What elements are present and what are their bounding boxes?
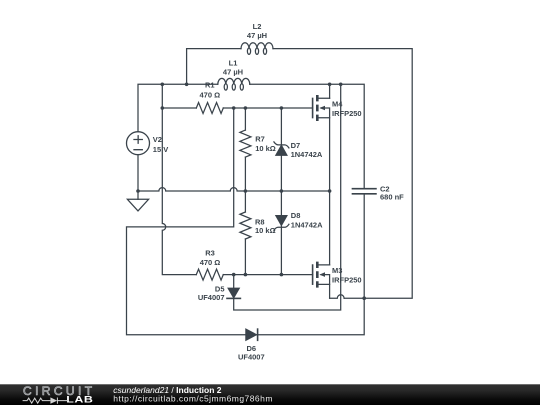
svg-text:1N4742A: 1N4742A — [291, 221, 323, 230]
svg-text:UF4007: UF4007 — [238, 353, 265, 362]
svg-text:D7: D7 — [291, 141, 301, 150]
svg-text:R3: R3 — [205, 249, 215, 258]
svg-text:IRFP250: IRFP250 — [332, 276, 362, 285]
svg-text:1N4742A: 1N4742A — [291, 150, 323, 159]
svg-text:15 V: 15 V — [153, 145, 168, 154]
svg-text:470 Ω: 470 Ω — [200, 258, 221, 267]
svg-text:470 Ω: 470 Ω — [199, 90, 220, 99]
svg-text:M4: M4 — [332, 99, 343, 108]
svg-text:L2: L2 — [253, 22, 262, 31]
svg-text:47 µH: 47 µH — [223, 68, 243, 77]
svg-text:UF4007: UF4007 — [198, 293, 225, 302]
svg-text:IRFP250: IRFP250 — [332, 109, 362, 118]
svg-text:47 µH: 47 µH — [247, 31, 267, 40]
svg-text:LAB: LAB — [66, 395, 93, 405]
svg-text:V2: V2 — [153, 135, 162, 144]
svg-text:R7: R7 — [255, 134, 265, 143]
svg-text:10 kΩ: 10 kΩ — [255, 144, 276, 153]
svg-text:D8: D8 — [291, 211, 301, 220]
svg-text:L1: L1 — [229, 58, 238, 67]
svg-text:10 kΩ: 10 kΩ — [255, 226, 276, 235]
svg-text:M3: M3 — [332, 266, 342, 275]
svg-text:680 nF: 680 nF — [380, 192, 404, 201]
svg-text:http://circuitlab.com/c5jmm6mg: http://circuitlab.com/c5jmm6mg786hm — [113, 394, 273, 404]
svg-text:R1: R1 — [205, 80, 215, 89]
